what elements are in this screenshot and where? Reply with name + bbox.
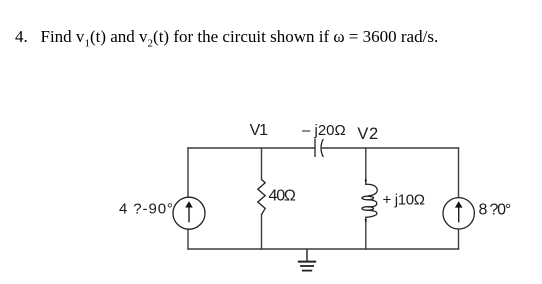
- current source I1 circle: [173, 197, 205, 229]
- current source I2 circle: [443, 198, 474, 229]
- resistor 40ohm zigzag: [258, 180, 265, 215]
- svg-text:V2: V2: [357, 125, 378, 143]
- wire branch V1 upper: [261, 148, 263, 180]
- inductor +j10ohm crossover loop 2: [362, 207, 374, 211]
- wire top: [188, 147, 314, 149]
- wire bottom: [188, 248, 459, 250]
- inductor pin tick bottom: [365, 219, 367, 222]
- inductor pin tick top: [365, 179, 367, 181]
- svg-text:40Ω: 40Ω: [269, 187, 296, 204]
- capacitor -j20ohm right plate: [321, 139, 323, 157]
- wire branch V2 upper: [365, 148, 367, 184]
- wire branch V1 lower: [261, 215, 263, 249]
- inductor +j10ohm coil bump 2: [368, 200, 377, 207]
- wire left edge lower: [187, 229, 189, 249]
- wire top right: [322, 147, 458, 149]
- svg-text:– j20Ω: – j20Ω: [302, 122, 346, 139]
- svg-text:4 ?-90°: 4 ?-90°: [119, 201, 174, 218]
- wire branch V2 lower: [365, 217, 367, 249]
- ground: [298, 249, 316, 271]
- wire right edge lower: [458, 229, 460, 249]
- svg-text:+ j10Ω: + j10Ω: [383, 191, 425, 208]
- inductor +j10ohm coil bump 3: [366, 210, 377, 217]
- current source I2 arrow: [455, 201, 463, 222]
- title: [15, 27, 438, 47]
- inductor +j10ohm crossover loop 1: [362, 196, 374, 200]
- wire left edge upper: [187, 148, 189, 197]
- svg-text:8 ?0°: 8 ?0°: [479, 202, 511, 219]
- wire right edge upper: [458, 148, 460, 197]
- inductor +j10ohm coil bump 1: [366, 184, 377, 196]
- svg-text:V1: V1: [250, 122, 268, 139]
- current source I1 arrow: [185, 201, 193, 222]
- capacitor -j20ohm left plate: [314, 139, 316, 158]
